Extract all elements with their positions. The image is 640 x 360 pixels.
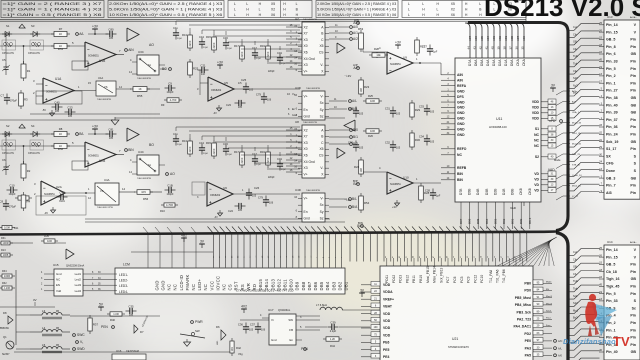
svg-text:A61A...: A61A...: [630, 241, 638, 244]
svg-text:R35: R35: [44, 234, 49, 238]
svg-text:105: 105: [359, 147, 364, 150]
svg-text:Octu0_24: Octu0_24: [572, 174, 582, 177]
svg-text:Dianzifanshao: Dianzifanshao: [563, 337, 616, 346]
svg-text:R17: R17: [234, 44, 239, 48]
svg-text:R13: R13: [1, 249, 6, 252]
svg-text:PB0: PB0: [524, 282, 531, 286]
svg-text:Pin_24: Pin_24: [606, 133, 618, 137]
svg-text:Pin: Pin: [630, 125, 636, 129]
svg-text:D7: D7: [140, 330, 144, 334]
svg-text:41: 41: [485, 46, 489, 50]
svg-text:C47: C47: [59, 191, 65, 195]
svg-text:=1]* GAIN = 0.5 ( RANGE 5 ) X6: =1]* GAIN = 0.5 ( RANGE 5 ) X6: [3, 13, 102, 17]
svg-text:Pout: Pout: [546, 317, 551, 320]
svg-text:Pin_40: Pin_40: [606, 103, 618, 107]
svg-text:⊣-3V: ⊣-3V: [344, 74, 351, 78]
svg-text:PC6: PC6: [453, 276, 457, 283]
svg-text:BIN: BIN: [457, 172, 463, 176]
svg-text:Gnd: Gnd: [304, 216, 310, 220]
svg-text:PEN: PEN: [301, 347, 308, 351]
svg-text:VD: VD: [534, 183, 539, 187]
svg-text:106: 106: [261, 329, 266, 332]
svg-text:Sck: Sck: [573, 294, 578, 298]
svg-text:L: L: [234, 8, 236, 12]
svg-text:U3D: U3D: [295, 86, 301, 90]
svg-text:REFA: REFA: [457, 84, 467, 88]
svg-text:27pF: 27pF: [177, 144, 183, 146]
svg-text:C34: C34: [419, 135, 425, 139]
svg-text:GB: GB: [573, 40, 577, 44]
svg-text:S1: S1: [6, 24, 10, 28]
svg-text:Pin_7: Pin_7: [606, 184, 616, 188]
svg-text:VDD: VDD: [383, 326, 391, 330]
svg-text:X3: X3: [304, 63, 308, 67]
svg-text:U14: U14: [607, 240, 613, 244]
svg-text:X6: X6: [271, 13, 275, 17]
svg-text:U13: U13: [607, 15, 613, 19]
svg-text:35: 35: [521, 46, 525, 50]
svg-text:PD13: PD13: [399, 275, 403, 283]
svg-text:105: 105: [109, 37, 114, 40]
svg-text:GB: GB: [631, 350, 637, 354]
svg-text:CFG: CFG: [606, 162, 614, 166]
svg-text:B/P: B/P: [353, 179, 358, 183]
svg-text:LED3-: LED3-: [119, 284, 128, 288]
svg-text:42: 42: [399, 256, 401, 258]
svg-text:R9: R9: [161, 103, 165, 107]
svg-text:S1_17: S1_17: [606, 147, 616, 151]
svg-text:B02: B02: [502, 218, 506, 224]
svg-text:FB: FB: [56, 345, 59, 347]
svg-text:DB2: DB2: [337, 281, 342, 290]
svg-text:GND: GND: [457, 122, 465, 126]
svg-text:Mo1: Mo1: [573, 308, 579, 312]
svg-text:VS: VS: [104, 85, 108, 89]
svg-text:1nF: 1nF: [201, 73, 206, 76]
svg-text:Pin_2: Pin_2: [606, 74, 616, 78]
svg-text:CPC1117N: CPC1117N: [28, 52, 40, 55]
svg-text:PC5: PC5: [460, 276, 464, 283]
svg-text:A/L: A/L: [558, 346, 562, 350]
svg-text:A07: A07: [468, 35, 472, 41]
svg-text:1K: 1K: [138, 87, 141, 91]
svg-text:CE3153AM: CE3153AM: [126, 350, 139, 353]
svg-text:A00: A00: [510, 35, 514, 41]
svg-text:R4: R4: [27, 200, 31, 204]
svg-text:R23: R23: [364, 85, 370, 89]
svg-text:VD: VD: [534, 189, 539, 193]
svg-text:VREF+: VREF+: [383, 297, 394, 301]
svg-text:FMARK: FMARK: [185, 274, 190, 290]
svg-text:2200: 2200: [266, 51, 270, 57]
svg-text:2200: 2200: [240, 51, 244, 57]
svg-text:A02: A02: [498, 35, 502, 41]
svg-text:V+: V+: [304, 172, 308, 176]
svg-text:Vi: Vi: [271, 318, 274, 322]
svg-text:L: L: [234, 2, 236, 6]
svg-text:C31: C31: [385, 107, 391, 111]
svg-text:D2B: D2B: [493, 188, 497, 195]
svg-text:Mcu2_32: Mcu2_32: [572, 144, 582, 146]
svg-text:U11: U11: [496, 117, 502, 121]
svg-text:+: +: [389, 188, 392, 193]
svg-text:A/1: A/1: [353, 31, 358, 35]
svg-text:R10: R10: [160, 209, 165, 213]
svg-text:C36: C36: [238, 323, 244, 327]
svg-text:GB: GB: [631, 140, 637, 144]
svg-text:VDD: VDD: [383, 333, 391, 337]
svg-text:CS: CS: [319, 154, 324, 158]
svg-text:220pF: 220pF: [268, 177, 275, 179]
svg-text:R3: R3: [24, 98, 28, 102]
svg-text:C21: C21: [200, 64, 206, 68]
svg-text:PA2_T23: PA2_T23: [517, 318, 531, 322]
svg-text:2200: 2200: [212, 148, 216, 154]
svg-text:X4 Gnd: X4 Gnd: [304, 57, 315, 61]
svg-text:L: L: [479, 2, 481, 6]
svg-text:Pin: Pin: [630, 45, 636, 49]
svg-text:Led4: Led4: [75, 289, 82, 293]
svg-text:PB10: PB10: [419, 275, 423, 283]
svg-text:108: 108: [359, 168, 363, 173]
svg-text:Pin: Pin: [630, 336, 636, 340]
svg-text:Miso3: Miso3: [546, 303, 553, 305]
svg-text:55: 55: [487, 256, 489, 258]
svg-text:Pin_14: Pin_14: [606, 23, 618, 27]
svg-text:X2: X2: [304, 25, 308, 29]
svg-text:GND: GND: [457, 117, 465, 121]
svg-text:−: −: [87, 147, 90, 152]
svg-text:Pin: Pin: [630, 285, 636, 289]
svg-text:AIN: AIN: [457, 78, 463, 82]
svg-text:Vbg: Vbg: [238, 352, 243, 356]
svg-text:DB9: DB9: [295, 281, 300, 290]
svg-text:L: L: [296, 2, 298, 6]
svg-text:VDD: VDD: [532, 100, 540, 104]
svg-text:DFS: DFS: [457, 95, 465, 99]
svg-text:105: 105: [396, 147, 401, 150]
svg-text:R37: R37: [93, 323, 99, 327]
svg-text:C33: C33: [419, 105, 425, 109]
svg-text:PA4_DAC1: PA4_DAC1: [514, 325, 532, 329]
svg-text:J-10K: J-10K: [4, 286, 11, 290]
svg-text:Sck_PB13: Sck_PB13: [439, 267, 443, 283]
svg-text:48: 48: [440, 256, 442, 258]
svg-text:GB: GB: [631, 52, 637, 56]
svg-text:GND: GND: [457, 128, 465, 132]
svg-text:CKA: CKA: [516, 58, 520, 66]
svg-text:Sy: Sy: [320, 108, 324, 112]
svg-text:SGM8051: SGM8051: [88, 155, 99, 158]
svg-text:B/L: B/L: [352, 197, 357, 201]
svg-text:1pF: 1pF: [433, 51, 438, 54]
svg-text:Mode: Mode: [546, 282, 552, 284]
svg-text:VDD: VDD: [532, 111, 540, 115]
svg-text:DB6: DB6: [313, 281, 318, 290]
svg-text:Led3: Led3: [75, 283, 82, 287]
svg-text:AIN: AIN: [457, 73, 463, 77]
svg-text:nPD: nPD: [549, 119, 556, 123]
svg-text:1008: 1008: [4, 226, 10, 230]
svg-text:Sck3: Sck3: [546, 311, 552, 313]
svg-text:Sx: Sx: [320, 101, 324, 105]
svg-text:Nc3: Nc3: [573, 83, 578, 87]
svg-text:27pF: 27pF: [256, 164, 262, 166]
svg-text:Gnd: Gnd: [271, 338, 277, 342]
svg-text:L: L: [259, 8, 261, 12]
svg-text:100: 100: [374, 326, 379, 329]
svg-text:L: L: [437, 8, 439, 12]
svg-text:Cut: Cut: [573, 25, 577, 29]
svg-text:U1A: U1A: [55, 77, 62, 81]
svg-text:X5: X5: [271, 2, 275, 6]
svg-text:En: En: [289, 338, 293, 342]
svg-text:100R: 100R: [2, 241, 8, 245]
svg-text:X5: X5: [319, 147, 323, 151]
svg-text:PA3: PA3: [525, 346, 531, 350]
svg-text:C39: C39: [330, 321, 336, 325]
svg-text:Tigk: Tigk: [573, 287, 579, 291]
svg-text:+3V: +3V: [92, 125, 99, 129]
svg-text:2.0KOm 1/50(A/L=0)* GAIN = 2.5: 2.0KOm 1/50(A/L=0)* GAIN = 2.5 ( RANGE 4…: [317, 2, 396, 6]
svg-text:74HC4053PW: 74HC4053PW: [306, 88, 321, 90]
svg-text:D4A: D4A: [486, 59, 490, 66]
svg-text:AO: AO: [149, 43, 154, 47]
svg-text:U9: U9: [403, 56, 407, 60]
svg-text:42: 42: [479, 46, 483, 50]
svg-text:1.0R: 1.0R: [113, 312, 119, 316]
svg-text:GB_3: GB_3: [606, 176, 615, 180]
svg-text:Sck1_31: Sck1_31: [572, 133, 581, 135]
svg-text:PC12: PC12: [473, 275, 477, 283]
svg-text:T31_PA6: T31_PA6: [496, 269, 500, 283]
svg-text:Tigh: Tigh: [573, 279, 579, 283]
svg-text:DB3: DB3: [331, 281, 336, 290]
svg-text:C79: C79: [256, 93, 262, 97]
svg-text:74HC4053PW: 74HC4053PW: [137, 78, 152, 80]
svg-text:C23: C23: [226, 103, 231, 107]
svg-text:R25: R25: [368, 94, 373, 98]
svg-text:-3V: -3V: [213, 112, 217, 115]
svg-text:C11: C11: [173, 132, 178, 136]
svg-text:54: 54: [480, 256, 482, 258]
svg-text:4.70R: 4.70R: [166, 203, 173, 207]
svg-text:X3: X3: [304, 38, 308, 42]
svg-text:SW: SW: [195, 329, 200, 333]
svg-text:R44: R44: [330, 344, 335, 348]
svg-text:NC: NC: [191, 284, 196, 291]
svg-text:−: −: [389, 176, 392, 181]
svg-text:R13: R13: [182, 33, 187, 37]
svg-text:VBAT: VBAT: [383, 305, 393, 309]
svg-text:105: 105: [252, 195, 257, 198]
svg-text:B5819W: B5819W: [0, 328, 10, 330]
svg-text:NC: NC: [173, 284, 178, 291]
svg-text:Gnd: Gnd: [304, 114, 310, 118]
svg-text:43: 43: [406, 256, 408, 258]
svg-text:10 KOm 1/50(A/L=0)* GAIN = 0.5: 10 KOm 1/50(A/L=0)* GAIN = 0.5 ( RANGE 5…: [109, 13, 222, 17]
svg-text:C79: C79: [258, 196, 264, 200]
svg-text:57: 57: [501, 256, 503, 258]
svg-text:R19: R19: [260, 44, 265, 48]
svg-text:U5: U5: [224, 81, 228, 85]
svg-text:Pin_40: Pin_40: [606, 350, 618, 354]
svg-text:A03: A03: [492, 35, 496, 41]
svg-text:L: L: [246, 2, 248, 6]
svg-text:Pin_15: Pin_15: [606, 255, 618, 259]
svg-text:PE0: PE0: [525, 339, 532, 343]
svg-text:10k: 10k: [376, 53, 381, 57]
svg-text:105: 105: [55, 110, 60, 113]
svg-text:SGM8051: SGM8051: [88, 55, 99, 58]
svg-text:S2: S2: [535, 155, 539, 159]
svg-text:U16: U16: [116, 349, 122, 353]
svg-text:D6A: D6A: [474, 59, 478, 66]
svg-text:PD12: PD12: [392, 275, 396, 283]
svg-text:PB3_Sck: PB3_Sck: [516, 310, 531, 314]
svg-text:14: 14: [122, 187, 126, 191]
svg-text:2200: 2200: [266, 157, 270, 163]
svg-text:NC: NC: [534, 133, 539, 137]
svg-text:106: 106: [267, 99, 272, 102]
svg-text:L: L: [408, 13, 410, 17]
svg-text:Tigk_45: Tigk_45: [606, 285, 619, 289]
svg-text:GND: GND: [457, 106, 465, 110]
svg-text:QX2406AL: QX2406AL: [278, 309, 291, 312]
svg-text:R15: R15: [206, 141, 211, 145]
svg-text:B/1: B/1: [353, 135, 358, 139]
svg-text:40: 40: [385, 256, 387, 258]
svg-text:105: 105: [68, 115, 73, 118]
svg-text:D5B: D5B: [468, 188, 472, 195]
svg-text:Si2307: Si2307: [2, 353, 10, 356]
svg-text:10R: 10R: [370, 99, 375, 103]
svg-text:LED2-: LED2-: [119, 279, 128, 283]
svg-text:GB_5: GB_5: [606, 263, 615, 267]
svg-text:CPC1117N: CPC1117N: [28, 152, 40, 155]
svg-text:L7 6.8µH: L7 6.8µH: [316, 303, 327, 307]
svg-text:U4D: U4D: [295, 188, 301, 192]
svg-text:105: 105: [396, 113, 401, 116]
svg-text:Mode: Mode: [554, 158, 561, 162]
svg-text:B00: B00: [519, 218, 523, 224]
svg-text:PD11: PD11: [385, 275, 389, 283]
svg-text:56: 56: [494, 256, 496, 258]
svg-text:S3: S3: [31, 24, 35, 28]
svg-text:LCM: LCM: [123, 263, 130, 267]
svg-text:NC: NC: [203, 284, 208, 291]
svg-text:SX: SX: [606, 154, 611, 158]
svg-text:51: 51: [460, 256, 462, 258]
svg-text:52: 52: [467, 256, 469, 258]
svg-text:U17: U17: [268, 308, 274, 312]
svg-text:C24: C24: [228, 209, 233, 213]
svg-text:Tigl: Tigl: [573, 62, 578, 66]
svg-text:R13: R13: [182, 139, 187, 143]
svg-text:B05: B05: [476, 218, 480, 224]
svg-text:⊣-3V: ⊣-3V: [344, 198, 351, 202]
svg-text:Pin: Pin: [630, 133, 636, 137]
svg-text:R7: R7: [59, 27, 63, 31]
svg-text:2.0KOm 1/50(A/L=0)* GAIN = 2.5: 2.0KOm 1/50(A/L=0)* GAIN = 2.5 ( RANGE 4…: [109, 2, 222, 6]
svg-text:R19: R19: [260, 150, 265, 154]
svg-text:Sz: Sz: [320, 216, 324, 220]
svg-text:A06: A06: [522, 35, 526, 41]
svg-text:Pin: Pin: [630, 321, 636, 325]
svg-text:A61A...: A61A...: [630, 16, 638, 19]
svg-text:Pin_37: Pin_37: [606, 118, 618, 122]
svg-text:27pF: 27pF: [227, 48, 233, 50]
svg-text:−: −: [43, 186, 46, 191]
svg-text:10 KOm 1/50(A/L=0)* GAIN = 0.5: 10 KOm 1/50(A/L=0)* GAIN = 0.5 ( RANGE 5…: [317, 13, 396, 17]
svg-text:27pF: 27pF: [227, 154, 233, 156]
svg-text:AO: AO: [170, 172, 175, 176]
svg-text:Four: Four: [546, 324, 551, 327]
svg-text:VS: VS: [100, 189, 104, 193]
svg-text:C13: C13: [199, 141, 204, 145]
svg-text:R15: R15: [206, 35, 211, 39]
svg-text:FB: FB: [56, 311, 59, 313]
svg-text:NC: NC: [56, 278, 60, 282]
svg-text:CKA_1: CKA_1: [572, 111, 580, 114]
svg-text:27pF: 27pF: [177, 38, 183, 40]
svg-text:STM32F103VET6: STM32F103VET6: [448, 345, 469, 349]
svg-text:1.2K: 1.2K: [330, 337, 336, 341]
svg-text:GB: GB: [573, 265, 577, 269]
svg-text:GB: GB: [631, 96, 637, 100]
svg-text:-3V: -3V: [44, 211, 48, 215]
svg-text:39: 39: [497, 46, 501, 50]
svg-text:PD0: PD0: [524, 289, 531, 293]
svg-text:Pin_6: Pin_6: [606, 52, 616, 56]
svg-text:X6: X6: [451, 13, 455, 17]
svg-text:X6: X6: [304, 154, 308, 158]
svg-text:Pin: Pin: [630, 89, 636, 93]
svg-text:PC10: PC10: [480, 275, 484, 283]
svg-text:C26: C26: [254, 186, 260, 190]
svg-text:MCik_13: MCik_13: [572, 186, 581, 188]
svg-text:27pF: 27pF: [256, 58, 262, 60]
svg-text:DB4: DB4: [325, 281, 330, 290]
svg-text:L: L: [408, 2, 410, 6]
svg-text:R40: R40: [110, 318, 115, 322]
svg-text:C19: C19: [277, 51, 282, 55]
svg-text:U10: U10: [403, 176, 409, 180]
svg-text:A07: A07: [516, 35, 520, 41]
svg-text:+: +: [389, 56, 392, 61]
svg-text:GB: GB: [631, 103, 637, 107]
svg-text:NC: NC: [457, 153, 462, 157]
svg-text:38: 38: [503, 46, 507, 50]
svg-text:5.0KOm 1/50(A/L=0)* GAIN = 1 (: 5.0KOm 1/50(A/L=0)* GAIN = 1 ( RANGE 4 )…: [109, 7, 222, 11]
svg-text:Pin_33: Pin_33: [606, 299, 618, 303]
svg-text:X7: X7: [304, 135, 308, 139]
svg-text:Gnd: Gnd: [56, 272, 62, 276]
svg-text:4V2: 4V2: [241, 305, 247, 309]
svg-text:C29: C29: [348, 107, 354, 111]
svg-text:44: 44: [467, 46, 471, 50]
svg-text:D8: D8: [3, 311, 7, 315]
svg-text:105: 105: [109, 137, 114, 140]
svg-text:R1: R1: [27, 69, 31, 73]
svg-text:2200: 2200: [240, 157, 244, 163]
svg-text:Pin: Pin: [630, 191, 636, 195]
svg-text:74HC4051PW: 74HC4051PW: [303, 19, 318, 21]
svg-text:VD: VD: [534, 178, 539, 182]
svg-text:58: 58: [508, 256, 510, 258]
svg-text:Pin: Pin: [630, 263, 636, 267]
svg-text:R56: R56: [143, 197, 149, 201]
